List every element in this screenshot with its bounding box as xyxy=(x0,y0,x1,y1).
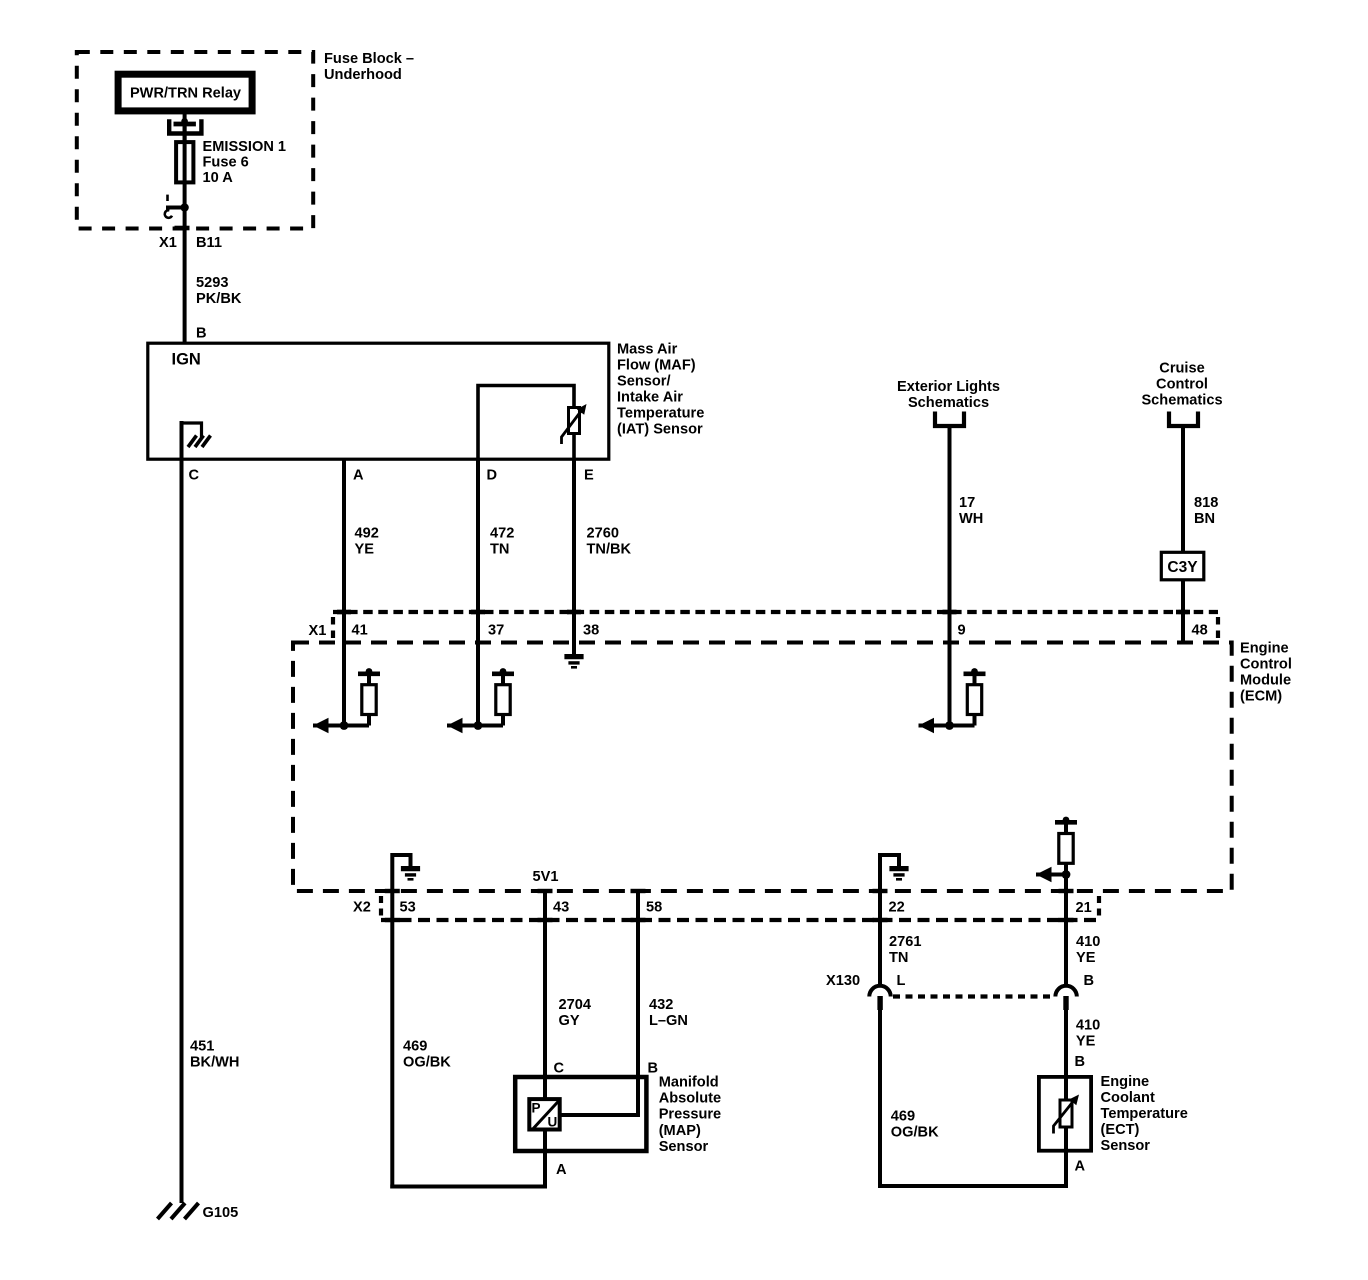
label: wire 451 BK/WH xyxy=(190,1039,239,1071)
label: wire 469 OG/BK (right) xyxy=(891,1109,939,1141)
ECM internal pull-up at pin 37 (resistor to B+, arrow) xyxy=(447,614,514,733)
fuse block - underhood (dashed outline) xyxy=(77,52,313,229)
svg-text:Temperature: Temperature xyxy=(617,406,704,422)
svg-text:58: 58 xyxy=(646,900,662,916)
ticks: wires crossing X1 line xyxy=(337,610,1190,615)
svg-text:Pressure: Pressure xyxy=(659,1107,721,1123)
label: wire 2761 TN xyxy=(889,934,921,966)
fuse F6: EMISSION 1 Fuse 6 10A xyxy=(176,126,193,208)
svg-text:OG/BK: OG/BK xyxy=(403,1055,451,1071)
label: C3Y xyxy=(1167,559,1198,576)
svg-text:(MAP): (MAP) xyxy=(659,1123,701,1139)
label: wire 492 YE xyxy=(355,526,379,558)
svg-text:YE: YE xyxy=(355,542,375,558)
svg-text:A: A xyxy=(556,1162,567,1178)
ECM internal supply at pin 21 (B+, resistor, arrow) xyxy=(1036,817,1077,892)
label: X2 (ECM connector) xyxy=(353,900,371,916)
svg-text:5293: 5293 xyxy=(196,275,228,291)
label: terminal B (X130) xyxy=(1084,973,1095,989)
label: terminal A (MAP) xyxy=(556,1162,567,1178)
label: pin 9 xyxy=(958,623,966,639)
svg-text:A: A xyxy=(353,468,364,484)
svg-text:37: 37 xyxy=(488,623,504,639)
wire 2760 TN/BK (pin E to ECM 38) xyxy=(572,459,576,614)
wire 492 YE (pin A to ECM 41) xyxy=(342,459,346,614)
label: pin 22 xyxy=(889,900,905,916)
label: X1 (fuse block connector) xyxy=(159,235,177,251)
svg-text:C: C xyxy=(189,468,200,484)
svg-text:(ECM): (ECM) xyxy=(1240,689,1282,705)
label: Engine Coolant Temperature (ECT) Sensor xyxy=(1101,1074,1188,1154)
svg-text:38: 38 xyxy=(583,623,599,639)
svg-text:Schematics: Schematics xyxy=(1141,393,1222,409)
MAF internal wiring: IAT to pin E xyxy=(572,434,576,460)
label: pin 48 xyxy=(1192,623,1208,639)
ECM internal pull-up at pin 9 (resistor to B+, arrow) xyxy=(919,614,986,733)
ECT internal wire B to thermistor xyxy=(1064,1077,1068,1100)
ECT thermistor RT (rect) xyxy=(1060,1100,1072,1127)
svg-text:WH: WH xyxy=(959,511,983,527)
svg-text:Sensor: Sensor xyxy=(659,1139,709,1155)
ECM module outline (dashed box) xyxy=(293,643,1232,892)
svg-text:B11: B11 xyxy=(196,235,222,251)
svg-text:41: 41 xyxy=(352,623,368,639)
ECM connector X2 line (dotted) xyxy=(381,896,1099,920)
wire 451 BK/WH (MAF C to G105) xyxy=(180,421,184,1203)
svg-text:B: B xyxy=(1075,1054,1086,1070)
label: pin 38 xyxy=(583,623,599,639)
label: terminal C xyxy=(189,468,200,484)
svg-text:X1: X1 xyxy=(309,623,327,639)
svg-text:Cruise: Cruise xyxy=(1159,361,1204,377)
MAP internal wire C to transducer xyxy=(543,1077,547,1099)
svg-text:Engine: Engine xyxy=(1101,1074,1150,1090)
svg-text:818: 818 xyxy=(1194,495,1218,511)
label: pin 58 xyxy=(646,900,662,916)
svg-text:OG/BK: OG/BK xyxy=(891,1125,939,1141)
tick: wire crossing fuse block edge xyxy=(175,226,190,231)
label: P xyxy=(532,1101,541,1116)
label: terminal E xyxy=(584,468,594,484)
svg-text:YE: YE xyxy=(1076,1034,1096,1050)
ECM internal pull-up at pin 41 (resistor to B+, arrow) xyxy=(313,614,380,733)
svg-text:A: A xyxy=(1075,1159,1086,1175)
wire 410 YE (X130 to ECT B) xyxy=(1064,1010,1068,1077)
svg-text:469: 469 xyxy=(891,1109,915,1125)
connector C3Y box xyxy=(1161,552,1204,580)
label: U xyxy=(548,1115,558,1130)
label: PWR/TRN Relay xyxy=(130,86,242,102)
svg-text:Module: Module xyxy=(1240,673,1291,689)
svg-text:Mass Air: Mass Air xyxy=(617,342,678,358)
svg-text:TN: TN xyxy=(490,542,509,558)
label: terminal B (MAF) xyxy=(196,326,207,342)
label: wire 5293 PK/BK xyxy=(196,275,242,307)
svg-text:YE: YE xyxy=(1076,950,1096,966)
svg-text:48: 48 xyxy=(1192,623,1208,639)
wire: 469 OG/BK splice to MAP A xyxy=(390,1185,547,1189)
MAF internal wiring: pin D to IAT thermistor xyxy=(478,386,574,460)
wire 410 YE (ECM 21 to X130 B) xyxy=(1064,892,1068,986)
svg-text:22: 22 xyxy=(889,900,905,916)
svg-text:EMISSION 1: EMISSION 1 xyxy=(203,139,287,155)
wire 17 WH xyxy=(948,426,952,614)
svg-text:43: 43 xyxy=(553,900,569,916)
label: wire 410 YE (lower) xyxy=(1076,1018,1100,1050)
svg-text:Control: Control xyxy=(1156,377,1208,393)
label: X130 xyxy=(826,973,860,989)
MAF/IAT sensor box xyxy=(148,343,609,459)
svg-text:U: U xyxy=(548,1115,558,1130)
svg-text:Engine: Engine xyxy=(1240,641,1289,657)
svg-text:2761: 2761 xyxy=(889,934,921,950)
label: 5V1 net xyxy=(533,869,559,885)
label: terminal B (MAP) xyxy=(648,1061,659,1077)
svg-text:5V1: 5V1 xyxy=(533,869,559,885)
wire 469 OG/BK (ECM 53 down) xyxy=(390,892,394,1189)
svg-text:Underhood: Underhood xyxy=(324,67,402,83)
wire: relay to fuse holder xyxy=(183,111,187,142)
svg-text:Sensor: Sensor xyxy=(1101,1138,1151,1154)
svg-text:E: E xyxy=(584,468,594,484)
ECM internal ground at pin 22 xyxy=(880,855,909,892)
svg-text:G105: G105 xyxy=(203,1205,239,1221)
svg-text:Temperature: Temperature xyxy=(1101,1106,1188,1122)
IAT thermistor arrow xyxy=(562,404,587,444)
ECM internal ground at pin 38 xyxy=(564,614,583,667)
svg-text:(IAT) Sensor: (IAT) Sensor xyxy=(617,422,703,438)
label: terminal L (X130) xyxy=(897,973,906,989)
label: Exterior Lights Schematics xyxy=(897,379,1000,411)
label: terminal C (MAP) xyxy=(554,1061,565,1077)
svg-text:472: 472 xyxy=(490,526,514,542)
connector terminal hook at fuse block exit xyxy=(165,195,185,218)
ticks: wires crossing X2 line xyxy=(385,918,1074,922)
wire 472 TN (pin D to ECM 37) xyxy=(476,459,480,614)
svg-text:BK/WH: BK/WH xyxy=(190,1055,239,1071)
off-page bracket (cruise control) xyxy=(1169,412,1198,427)
svg-text:Control: Control xyxy=(1240,657,1292,673)
svg-text:Intake Air: Intake Air xyxy=(617,390,683,406)
svg-text:(ECT): (ECT) xyxy=(1101,1122,1140,1138)
svg-text:Fuse 6: Fuse 6 xyxy=(203,155,249,171)
svg-text:P: P xyxy=(532,1101,541,1116)
label: wire 469 OG/BK (left) xyxy=(403,1039,451,1071)
IAT thermistor RT (rect) xyxy=(569,408,580,434)
svg-text:469: 469 xyxy=(403,1039,427,1055)
label: pin 41 xyxy=(352,623,368,639)
wire 469 OG/BK (X130 to ECT A splice) xyxy=(878,1010,1068,1188)
svg-text:492: 492 xyxy=(355,526,379,542)
label: wire 2704 GY xyxy=(559,997,592,1029)
wire 5293 PK/BK: fuse block to MAF B xyxy=(183,208,187,345)
wire 818 BN (upper) xyxy=(1181,426,1185,551)
label: pin 43 xyxy=(553,900,569,916)
svg-text:410: 410 xyxy=(1076,934,1100,950)
svg-text:TN/BK: TN/BK xyxy=(587,542,632,558)
svg-text:IGN: IGN xyxy=(172,351,201,369)
svg-text:L: L xyxy=(897,973,906,989)
svg-text:Sensor/: Sensor/ xyxy=(617,374,671,390)
label: Cruise Control Schematics xyxy=(1141,361,1222,409)
chassis ground G105 xyxy=(158,1203,199,1219)
in-line connector X130 terminal B (arc+pin) xyxy=(1055,986,1076,1010)
label: wire 432 L-GN xyxy=(649,997,688,1029)
label: wire 17 WH xyxy=(959,495,983,527)
svg-text:TN: TN xyxy=(889,950,908,966)
label: terminal D xyxy=(487,468,498,484)
label: pin 21 xyxy=(1076,900,1092,916)
label: terminal A (ECT) xyxy=(1075,1159,1086,1175)
svg-text:53: 53 xyxy=(400,900,416,916)
label: EMISSION 1 / Fuse 6 / 10 A xyxy=(203,139,287,186)
ECM connector X1 line (dotted) xyxy=(333,612,1218,640)
svg-text:B: B xyxy=(196,326,207,342)
label: Fuse Block - Underhood xyxy=(324,51,414,83)
svg-text:X130: X130 xyxy=(826,973,860,989)
svg-text:BN: BN xyxy=(1194,511,1215,527)
svg-text:Exterior Lights: Exterior Lights xyxy=(897,379,1000,395)
svg-text:410: 410 xyxy=(1076,1018,1100,1034)
svg-text:10 A: 10 A xyxy=(203,170,234,186)
label: pin 53 xyxy=(400,900,416,916)
relay K: PWR/TRN Relay (thick box) xyxy=(118,74,252,111)
ECT wire A xyxy=(1064,1128,1068,1189)
svg-text:Fuse Block –: Fuse Block – xyxy=(324,51,414,67)
label: B11 (fuse block pin) xyxy=(196,235,222,251)
svg-text:L–GN: L–GN xyxy=(649,1013,688,1029)
X130 connector line (dotted) xyxy=(893,994,1053,998)
label: terminal A xyxy=(353,468,364,484)
MAP wire A (to splice) xyxy=(543,1132,547,1189)
svg-text:PK/BK: PK/BK xyxy=(196,291,242,307)
off-page bracket (exterior lights) xyxy=(935,412,964,427)
svg-text:17: 17 xyxy=(959,495,975,511)
label: X1 (ECM connector) xyxy=(309,623,327,639)
ticks: wires crossing ECM bottom edge xyxy=(385,889,1074,893)
svg-text:PWR/TRN Relay: PWR/TRN Relay xyxy=(130,86,242,102)
svg-text:Flow (MAF): Flow (MAF) xyxy=(617,358,696,374)
svg-text:2704: 2704 xyxy=(559,997,592,1013)
label: Manifold Absolute Pressure (MAP) Sensor xyxy=(659,1075,721,1155)
label: G105 xyxy=(203,1205,239,1221)
wire 2761 TN (ECM 22 to X130 L) xyxy=(878,892,882,986)
MAF internal chassis ground on pin C xyxy=(182,423,211,459)
svg-text:451: 451 xyxy=(190,1039,214,1055)
in-line connector X130 terminal L (arc+pin) xyxy=(869,986,890,1010)
junction dot below fuse xyxy=(180,203,188,211)
wire 2704 GY (ECM 43 to MAP C) xyxy=(543,892,547,1077)
label: Engine Control Module (ECM) xyxy=(1240,641,1292,705)
svg-text:Coolant: Coolant xyxy=(1101,1090,1155,1106)
svg-text:9: 9 xyxy=(958,623,966,639)
label: terminal B (ECT) xyxy=(1075,1054,1086,1070)
fuse holder terminal (T-bar with dot) xyxy=(174,118,196,125)
label: wire 410 YE (upper) xyxy=(1076,934,1100,966)
svg-text:2760: 2760 xyxy=(587,526,619,542)
MAP pressure transducer P/U symbol xyxy=(529,1099,560,1129)
svg-text:C: C xyxy=(554,1061,565,1077)
svg-text:B: B xyxy=(648,1061,659,1077)
svg-text:D: D xyxy=(487,468,498,484)
svg-text:X1: X1 xyxy=(159,235,177,251)
label: wire 472 TN xyxy=(490,526,514,558)
wire 818 BN (C3Y to ECM 48) xyxy=(1181,580,1185,644)
svg-text:21: 21 xyxy=(1076,900,1092,916)
label: IGN xyxy=(172,351,201,369)
fuse holder socket (cup symbol) xyxy=(169,119,201,133)
svg-text:GY: GY xyxy=(559,1013,580,1029)
ECT thermistor arrow xyxy=(1054,1095,1080,1134)
svg-text:432: 432 xyxy=(649,997,673,1013)
svg-text:Absolute: Absolute xyxy=(659,1091,721,1107)
label: wire 818 BN xyxy=(1194,495,1218,527)
svg-text:Manifold: Manifold xyxy=(659,1075,719,1091)
MAP sensor box xyxy=(515,1077,646,1151)
label: wire 2760 TN/BK xyxy=(587,526,632,558)
ECT sensor box xyxy=(1039,1077,1091,1151)
svg-text:Schematics: Schematics xyxy=(908,395,989,411)
wire 432 L-GN (ECM 58 to MAP B) xyxy=(636,892,640,1077)
MAP internal wire B to transducer xyxy=(562,1077,639,1115)
svg-text:B: B xyxy=(1084,973,1095,989)
label: Mass Air Flow (MAF) Sensor / Intake Air Temperature (IAT) Sensor xyxy=(617,342,704,438)
ECM internal ground at pin 53 xyxy=(392,855,420,892)
svg-text:C3Y: C3Y xyxy=(1167,559,1198,576)
svg-text:X2: X2 xyxy=(353,900,371,916)
label: pin 37 xyxy=(488,623,504,639)
